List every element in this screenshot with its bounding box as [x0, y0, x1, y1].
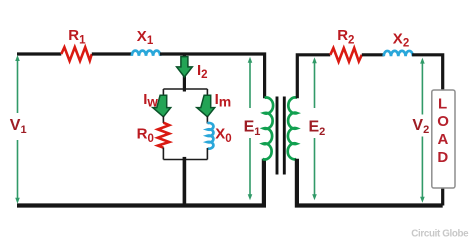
svg-text:O: O — [437, 113, 449, 130]
wire shunt right branch mid stub — [206, 116, 208, 124]
wire top primary left segment — [17, 52, 61, 55]
wire center junction lower — [183, 157, 187, 206]
transformer core bar left — [276, 97, 279, 175]
current arrow I2 — [177, 57, 193, 77]
svg-text:Iw: Iw — [143, 91, 158, 109]
wire shunt box top bar — [163, 88, 207, 90]
wire center junction upper — [183, 54, 186, 92]
svg-text:D: D — [437, 149, 448, 166]
svg-text:A: A — [438, 131, 449, 148]
inductor X1 — [132, 51, 160, 56]
wire top primary middle segment — [92, 52, 132, 55]
resistor R0 — [158, 123, 169, 148]
wire secondary top middle segment — [362, 53, 384, 56]
wire shunt right branch upper stub — [206, 89, 208, 96]
transformer secondary winding — [288, 97, 297, 159]
svg-text:Circuit Globe: Circuit Globe — [411, 229, 469, 240]
transformer core bar right — [283, 97, 286, 175]
voltage arrow V1 — [15, 55, 20, 204]
wire secondary top right segment with corner down — [412, 55, 443, 206]
resistor R2 — [330, 48, 362, 62]
current arrow Im — [197, 95, 215, 117]
svg-text:Im: Im — [215, 91, 232, 109]
wire secondary left with corner to top — [297, 55, 330, 99]
transformer primary winding — [263, 98, 274, 160]
load box — [432, 90, 455, 188]
wire shunt left branch mid stub — [162, 116, 164, 123]
emf arrow E1 — [248, 57, 253, 200]
wire shunt left branch upper stub — [162, 89, 164, 96]
wire bottom primary with corner up to winding — [17, 159, 264, 206]
wire shunt left branch lower stub — [162, 148, 164, 160]
wire shunt right branch lower stub — [206, 148, 208, 160]
voltage arrow V2 — [420, 58, 425, 203]
wire secondary bottom with corner up to winding — [297, 159, 443, 206]
svg-text:L: L — [438, 95, 447, 112]
resistor R1 — [61, 47, 92, 61]
wire top primary right segment with corner down to winding — [160, 54, 265, 98]
wire shunt box bottom bar — [163, 159, 207, 161]
emf arrow E2 — [312, 57, 317, 200]
current arrow Iw — [153, 95, 171, 117]
inductor X0 — [207, 123, 213, 149]
inductor X2 — [384, 51, 413, 56]
